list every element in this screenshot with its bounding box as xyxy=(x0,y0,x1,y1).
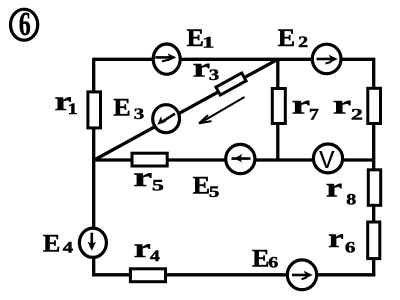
svg-text:2: 2 xyxy=(298,34,308,51)
svg-text:r: r xyxy=(326,172,343,203)
svg-text:6: 6 xyxy=(19,6,31,43)
wire right xyxy=(372,58,375,276)
svg-text:8: 8 xyxy=(346,191,356,208)
EMF source E5 xyxy=(226,144,255,173)
EMF source E1 xyxy=(153,44,180,74)
resistor R1 xyxy=(88,92,101,128)
svg-text:1: 1 xyxy=(202,34,215,51)
svg-text:3: 3 xyxy=(134,106,145,123)
wire left xyxy=(92,58,95,276)
svg-text:E: E xyxy=(113,94,131,121)
resistor R2 xyxy=(368,88,381,123)
svg-text:E: E xyxy=(278,25,296,52)
wire top xyxy=(94,58,374,61)
svg-text:5: 5 xyxy=(152,177,164,194)
svg-text:r: r xyxy=(193,51,211,82)
EMF source E4 xyxy=(79,228,106,257)
svg-text:r: r xyxy=(328,222,344,253)
svg-text:E: E xyxy=(43,231,61,258)
resistor R6 xyxy=(368,222,380,259)
svg-text:r: r xyxy=(333,88,352,119)
current direction arrow I3 xyxy=(199,97,245,123)
svg-text:4: 4 xyxy=(63,239,73,256)
wire middle xyxy=(94,158,374,161)
svg-text:6: 6 xyxy=(345,239,356,256)
resistor R4 xyxy=(130,269,165,282)
svg-text:5: 5 xyxy=(209,184,220,201)
svg-text:E: E xyxy=(252,246,270,273)
resistor R3 tilted xyxy=(216,73,246,95)
svg-text:E: E xyxy=(193,173,211,200)
wire bottom xyxy=(92,273,375,276)
svg-text:7: 7 xyxy=(309,106,319,123)
resistor R8 xyxy=(368,170,380,206)
resistor R7 xyxy=(272,89,285,124)
svg-text:2: 2 xyxy=(351,106,363,123)
EMF source E6 xyxy=(287,260,316,290)
wire diagonal r3 branch xyxy=(94,59,278,160)
resistor R5 xyxy=(132,153,167,166)
svg-text:1: 1 xyxy=(68,101,78,118)
svg-text:r: r xyxy=(134,232,151,263)
wire r7 branch xyxy=(276,59,279,160)
svg-text:r: r xyxy=(292,88,311,119)
svg-text:3: 3 xyxy=(209,67,220,84)
problem number badge 6 xyxy=(11,6,38,43)
voltmeter V xyxy=(313,144,342,176)
svg-text:r: r xyxy=(133,161,152,192)
EMF source E3 xyxy=(153,105,180,133)
svg-text:6: 6 xyxy=(268,254,278,271)
svg-text:4: 4 xyxy=(150,248,160,265)
EMF source E2 xyxy=(312,44,341,73)
